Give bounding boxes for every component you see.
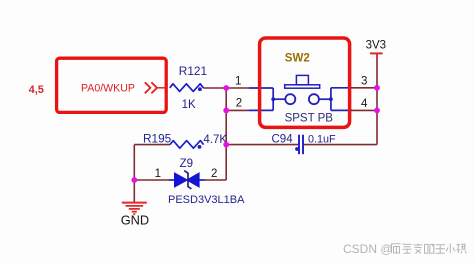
label R121 (179, 64, 207, 78)
svg-text:3: 3 (361, 75, 367, 87)
wire junction2 to SW2 pin2 (226, 109, 249, 111)
value 0.1uF (308, 134, 336, 146)
svg-text:SPST PB: SPST PB (285, 112, 334, 124)
switch SW2 left contact circle (285, 94, 295, 104)
svg-text:4: 4 (361, 98, 368, 110)
junction dot pin2 net (223, 108, 229, 114)
label Z9 (180, 158, 193, 170)
svg-text:1: 1 (155, 168, 161, 180)
svg-text:C94: C94 (272, 134, 294, 146)
svg-text:1: 1 (235, 75, 241, 87)
pin number 2 (SW2) (236, 97, 242, 109)
wire junction1 to SW2 pin1 (226, 87, 249, 89)
label GND (121, 213, 149, 228)
svg-text:Z9: Z9 (180, 158, 193, 170)
power 3V3 bar (370, 53, 383, 60)
svg-text:3V3: 3V3 (366, 40, 386, 52)
wire junction3 to C94 left plate (226, 144, 298, 146)
wire SW2 pin4 to 3V3 vertical (352, 109, 377, 111)
pin number 3 (SW2) (361, 75, 367, 87)
wire GND stub (133, 180, 135, 202)
wire 3V3 right vertical (376, 53, 378, 144)
wire left vertical down to GND node (133, 145, 135, 180)
svg-text:SW2: SW2 (285, 53, 310, 65)
svg-text:PESD3V3L1BA: PESD3V3L1BA (168, 194, 245, 206)
value SPST PB (285, 112, 334, 124)
switch SW2 right contact circle (309, 94, 319, 104)
label SW2 (285, 53, 310, 65)
junction dot pin1 net (223, 85, 229, 91)
switch SW2 right pin routing (319, 88, 353, 111)
svg-text:CSDN @: CSDN @ (343, 242, 393, 256)
svg-text:2: 2 (236, 97, 242, 109)
capacitor C94 (295, 135, 303, 155)
switch SW2 red body box (260, 38, 350, 127)
svg-text:1K: 1K (182, 99, 196, 111)
pin number 1 (SW2) (235, 75, 241, 87)
wire SW2 pin3 to 3V3 vertical (352, 87, 377, 89)
label PA0/WKUP (81, 82, 135, 94)
junction dot pin3 net (374, 85, 380, 91)
svg-text:GND: GND (121, 213, 149, 228)
switch SW2 internals: left pin routing (249, 88, 286, 110)
svg-text:2: 2 (211, 168, 217, 180)
port PA0/WKUP box (57, 58, 167, 112)
pin number 1 (Z9) (155, 168, 161, 180)
ground (122, 203, 147, 215)
wire PA0 net: R121 right to junction (203, 87, 226, 89)
pin number 2 (Z9) (211, 168, 217, 180)
diode Z9 (TVS) (169, 171, 205, 189)
wire main left vertical (net PA0 down to Z9) (225, 88, 227, 180)
pin number 4 (SW2) (361, 98, 368, 110)
resistor R195 (170, 141, 204, 149)
value 4.7K (203, 134, 227, 146)
value 1K (182, 99, 196, 111)
resistor R121 (170, 84, 204, 92)
value PESD3V3L1BA (168, 194, 245, 206)
svg-text:0.1uF: 0.1uF (308, 134, 336, 146)
junction dot GND node (131, 177, 137, 183)
svg-text:R121: R121 (179, 64, 207, 78)
label R195 (143, 131, 172, 145)
label 3V3 (366, 40, 386, 52)
svg-text:PA0/WKUP: PA0/WKUP (81, 82, 135, 94)
svg-text:4,5: 4,5 (29, 84, 44, 96)
junction dot R195/C94 net (223, 142, 229, 148)
switch SW2 actuator knob (296, 75, 308, 84)
svg-text:R195: R195 (143, 131, 172, 145)
switch SW2 actuator bar (285, 85, 320, 88)
wire Z9 pin2 to right corner of net (205, 179, 227, 181)
junction dot pin4 net (374, 108, 380, 114)
port chevron (145, 82, 167, 93)
watermark chinese glyph blocks (392, 244, 467, 254)
wire GND node to Z9 pin1 (134, 179, 169, 181)
sheet entry label 4,5 (29, 84, 44, 96)
wire R195 left lead to left corner (134, 144, 170, 146)
wire C94 right plate to right vertical (304, 144, 377, 146)
watermark CSDN (343, 242, 393, 256)
label C94 (272, 134, 294, 146)
